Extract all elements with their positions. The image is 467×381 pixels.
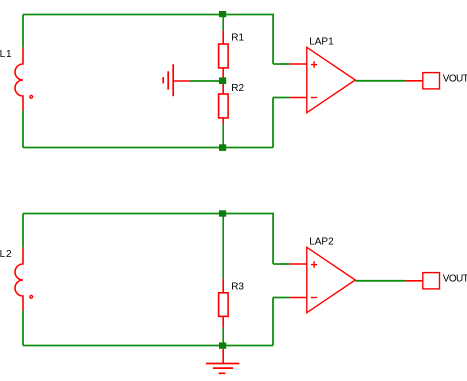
wire to op-amp minus input xyxy=(273,97,290,99)
inductor L2 xyxy=(15,248,33,311)
resistor R2 xyxy=(219,84,229,124)
resistor R3 xyxy=(219,279,229,328)
wire right vertical up to op-amp minus input xyxy=(272,298,274,346)
svg-text:L2: L2 xyxy=(0,249,12,260)
wire to op-amp minus input xyxy=(273,297,290,299)
node mid junction xyxy=(219,77,226,84)
wire bottom horizontal xyxy=(23,345,273,347)
wire left bottom vertical xyxy=(22,311,24,346)
wire R2 bottom to bottom node xyxy=(222,124,224,147)
svg-text:R1: R1 xyxy=(231,33,244,44)
inductor L1 xyxy=(15,48,33,111)
wire right vertical down to op-amp plus input xyxy=(272,15,274,65)
wire to op-amp plus input xyxy=(273,63,289,65)
wire op-amp output xyxy=(355,80,406,82)
wire right vertical up to op-amp minus input xyxy=(272,98,274,148)
node bottom junction (bottom circuit) xyxy=(219,342,226,348)
resistor R1 xyxy=(219,30,229,78)
svg-text:LAP1: LAP1 xyxy=(309,36,334,47)
wire R3 bottom to bottom node xyxy=(222,328,224,343)
node top junction (bottom circuit) xyxy=(219,210,226,216)
wire ground to mid node xyxy=(190,80,223,82)
wire top horizontal (L1 top to right corner) xyxy=(23,14,274,16)
wire left top vertical xyxy=(22,15,24,48)
wire top horizontal (L2 top to right corner) xyxy=(23,213,274,215)
op-amp LAP2 xyxy=(290,247,356,312)
port VOUT (top) xyxy=(406,73,440,89)
op-amp LAP1 xyxy=(290,47,356,112)
svg-text:L1: L1 xyxy=(0,49,12,60)
ground (bottom) xyxy=(206,349,240,374)
ground (left, at divider mid node) xyxy=(163,64,190,96)
node bottom junction xyxy=(219,144,226,151)
wire to op-amp plus input xyxy=(273,263,289,265)
wire bottom horizontal xyxy=(23,147,273,149)
svg-text:VOUT: VOUT xyxy=(443,73,467,84)
wire right vertical down to op-amp plus input xyxy=(272,214,274,265)
wire op-amp output xyxy=(355,280,406,282)
wire stub below top node to R3 xyxy=(222,217,224,279)
svg-text:R3: R3 xyxy=(231,282,244,293)
port VOUT (bottom) xyxy=(406,273,440,289)
wire left bottom vertical xyxy=(22,111,24,148)
svg-text:LAP2: LAP2 xyxy=(309,236,334,247)
wire left top vertical xyxy=(22,214,24,248)
svg-text:R2: R2 xyxy=(231,83,244,94)
svg-text:VOUT: VOUT xyxy=(443,273,467,284)
wire stub below top node to R1 xyxy=(222,17,224,30)
node top junction xyxy=(219,11,226,17)
